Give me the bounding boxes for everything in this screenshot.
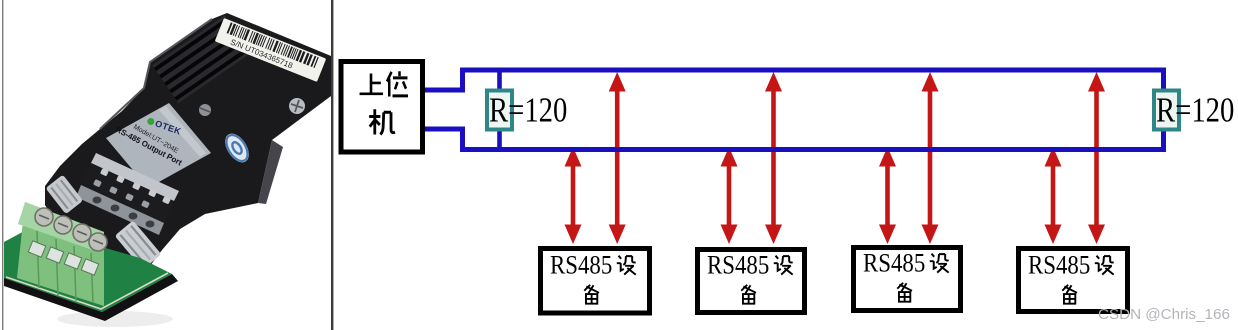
wire clamp windows (28, 241, 98, 275)
jack screw left (45, 175, 83, 215)
small screw left of it (199, 104, 211, 116)
svg-text:RS485: RS485 (1028, 251, 1090, 280)
DB9 pins row2 (93, 179, 150, 208)
label text Model (132, 124, 180, 156)
svg-text:R=120: R=120 (1156, 90, 1234, 129)
PCB silk text (22, 254, 90, 284)
blue ring logo on side (220, 129, 253, 166)
device box 4 (1019, 249, 1128, 312)
green PCB (4, 228, 172, 312)
svg-text:RS485: RS485 (863, 249, 925, 278)
svg-text:CSDN @Chris_166: CSDN @Chris_166 (1098, 306, 1230, 323)
glyph 备 (box4) (1062, 285, 1077, 304)
separator line between photo and diagram (331, 0, 333, 330)
PCB dark bottom side band (4, 274, 178, 321)
left termination resistor R=120 (497, 70, 502, 150)
red long arrow 1 (609, 72, 626, 244)
device shadow (57, 311, 173, 327)
glyph 设 (box4) (1095, 256, 1114, 275)
terminal screws (35, 208, 107, 251)
glyph 备 (box3) (897, 283, 912, 302)
jack screw right (115, 220, 162, 269)
body ribbed section (152, 15, 251, 103)
PCB edge plating stripe (6, 273, 168, 309)
device box 1 (541, 249, 650, 314)
label logo UOTEK (146, 116, 183, 137)
converter black body (45, 13, 331, 280)
svg-text:RS485: RS485 (550, 251, 612, 280)
body right soft reflection (258, 140, 283, 204)
DB9 shield top rim (silver) (91, 153, 179, 201)
device box 3 (854, 248, 961, 311)
body edge highlight (100, 19, 212, 129)
red short arrow 1 (565, 147, 582, 244)
red long arrow 2 (765, 72, 782, 244)
photo left border line (2, 0, 3, 330)
right termination resistor R=120 (1154, 91, 1179, 130)
glyph 设 (box1) (617, 256, 636, 275)
body screw near barcode (289, 98, 305, 114)
red short arrow 2 (721, 147, 738, 244)
DB9 pin field (dark) (81, 163, 174, 223)
slot dividers (37, 231, 93, 303)
glyph 机 (369, 109, 395, 134)
red long arrow 4 (1088, 72, 1105, 244)
red short arrow 3 (879, 147, 896, 244)
glyph 上 (360, 74, 383, 94)
green terminal block outline (17, 202, 104, 306)
svg-text:R=120: R=120 (489, 90, 567, 129)
glyph 备 (box2) (741, 285, 756, 304)
red long arrow 3 (922, 72, 939, 244)
gray model label (106, 103, 211, 188)
device boxes RS485设备 (541, 249, 650, 314)
wire stub bottom from host box (424, 127, 463, 153)
barcode label (215, 18, 326, 82)
blue bus: top line, right vertical, bottom line (460, 70, 1164, 150)
DB9 shield lower band (76, 185, 164, 235)
wire stub top from host box (424, 68, 463, 93)
DB9 pins row1 (100, 168, 171, 204)
host box 上位机 (341, 62, 423, 153)
glyph 备 (box1) (584, 285, 599, 304)
glyph 设 (box2) (774, 256, 793, 275)
label text RS-485 Output Port (114, 125, 184, 168)
svg-text:RS485: RS485 (707, 251, 769, 280)
terminal block top face (18, 202, 104, 252)
device box 2 (698, 250, 805, 313)
glyph 位 (387, 71, 408, 96)
glyph 设 (box3) (930, 254, 949, 273)
red short arrow 4 (1045, 147, 1062, 244)
